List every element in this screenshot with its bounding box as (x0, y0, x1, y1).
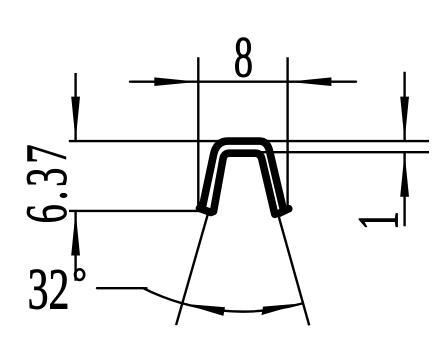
svg-text:8: 8 (234, 24, 253, 89)
dimension 32deg: leader line (97, 287, 147, 289)
profile: right end cap (279, 209, 289, 214)
profile: inner surface contour (214, 153, 275, 214)
dimension 1: upper dimension line with down arrow (403, 72, 405, 141)
dimension 8: right extension line (286, 57, 288, 209)
dimension 8: right arrowhead (288, 77, 332, 86)
svg-text:6.37: 6.37 (14, 141, 79, 224)
svg-text:32: 32 (28, 257, 70, 321)
profile: left end cap (199, 208, 211, 212)
dimension 32deg: degree symbol (75, 269, 84, 280)
dimension 8: left extension line (197, 57, 199, 210)
dimension 6.37: upper dimension line with down arrow (74, 73, 76, 141)
profile: outer surface contour (202, 141, 283, 209)
svg-text:1: 1 (346, 211, 411, 230)
dimension 8: left arrowhead (154, 77, 198, 86)
dimension 32deg: right arc arrowhead (261, 303, 301, 315)
dimension 1: lower dimension line with up arrow (403, 152, 405, 226)
dimension 32deg: angle arc (143, 288, 302, 311)
angle construction line left (176, 211, 209, 325)
dimension 8: dimension line (130, 80, 356, 82)
dimension 32deg: left arc arrowhead (183, 304, 225, 316)
wire: lower extension line y=152 (1 lower ext) (250, 151, 429, 153)
angle construction line right (278, 213, 310, 326)
dimension 6.37: lower extension line (69, 210, 206, 212)
dimension 6.37: lower dimension line with up arrow (74, 211, 76, 281)
wire: long extension line y=141 (top of profile / 6.37 upper ext / 1 upper ext) (69, 140, 429, 142)
